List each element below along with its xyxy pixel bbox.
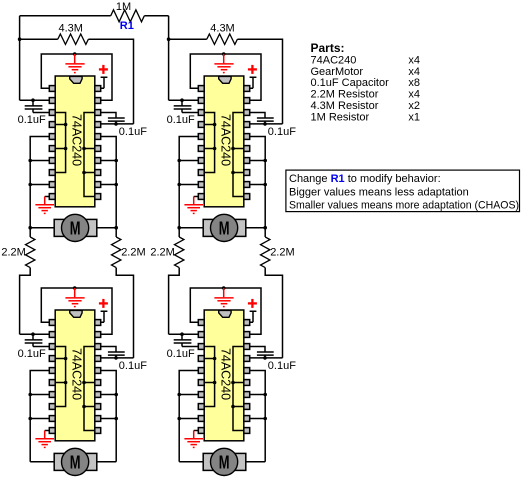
svg-text:x1: x1 [408, 111, 420, 123]
svg-text:x4: x4 [408, 66, 420, 78]
74AC240 block U3 + motor M3 (bottom-left) [18, 286, 148, 475]
resistor 2.2M cross resistor 4 [264, 228, 266, 237]
wire 2.2M cross resistor 2 to lower block [116, 268, 133, 358]
junction net A [18, 37, 22, 41]
svg-text:2.2M: 2.2M [150, 247, 174, 259]
wire 2.2M cross resistor 1 to lower block [20, 268, 31, 335]
resistor R1 1M [111, 10, 145, 22]
wire 2.2M cross resistor 3 to lower block [169, 268, 180, 335]
wire net B vertical [168, 16, 170, 100]
svg-text:x4: x4 [408, 89, 420, 101]
74AC240 block U2 + motor M2 (top-right) [167, 52, 297, 241]
svg-text:4.3M: 4.3M [210, 22, 234, 34]
svg-text:2.2M: 2.2M [1, 247, 25, 259]
svg-text:2.2M: 2.2M [121, 247, 145, 259]
note box [286, 170, 520, 212]
wire 4.3M to TL right vertical [88, 39, 133, 124]
svg-text:74AC240: 74AC240 [311, 54, 357, 66]
svg-text:2.2M Resistor: 2.2M Resistor [311, 89, 379, 101]
svg-text:Bigger values means less adapt: Bigger values means less adaptation [289, 186, 469, 198]
svg-text:0.1uF Capacitor: 0.1uF Capacitor [311, 77, 390, 89]
junction motor tap (2.2M cross resistor 4) [263, 226, 267, 230]
resistor 2.2M cross resistor 2 [115, 228, 117, 237]
wire net A to 4.3M [20, 38, 58, 40]
resistor 4.3M left [58, 34, 89, 44]
svg-text:4.3M Resistor: 4.3M Resistor [311, 100, 379, 112]
wire 2.2M cross resistor 4 to lower block [265, 268, 282, 358]
resistor 2.2M cross resistor 1 [29, 228, 31, 237]
svg-text:1M: 1M [116, 1, 131, 13]
junction motor tap (2.2M cross resistor 2) [114, 226, 118, 230]
svg-text:x4: x4 [408, 54, 420, 66]
svg-text:x8: x8 [408, 77, 420, 89]
svg-text:R1: R1 [120, 20, 134, 32]
wire 4.3M right to TR right vertical [237, 39, 282, 124]
junction motor tap (2.2M cross resistor 1) [28, 226, 32, 230]
svg-text:4.3M: 4.3M [58, 22, 82, 34]
wire net A vertical [19, 16, 21, 100]
svg-text:Change R1 to modify behavior:: Change R1 to modify behavior: [289, 173, 441, 185]
resistor 2.2M cross resistor 3 [178, 228, 180, 237]
svg-text:Parts:: Parts: [311, 41, 345, 55]
74AC240 block U4 + motor M4 (bottom-right) [167, 286, 297, 475]
wire top rail from net A [20, 15, 111, 17]
74AC240 block U1 + motor M1 (top-left) [18, 52, 148, 241]
svg-text:1M Resistor: 1M Resistor [311, 111, 370, 123]
svg-text:2.2M: 2.2M [270, 247, 294, 259]
junction motor tap (2.2M cross resistor 3) [177, 226, 181, 230]
wire R1 to net B [144, 15, 168, 17]
resistor 4.3M right [207, 34, 238, 44]
wire net B to 4.3M right [169, 38, 207, 40]
svg-text:Smaller values means more adap: Smaller values means more adaptation (CH… [289, 200, 519, 212]
svg-text:GearMotor: GearMotor [311, 66, 364, 78]
junction net B [167, 37, 171, 41]
svg-text:x2: x2 [408, 100, 420, 112]
